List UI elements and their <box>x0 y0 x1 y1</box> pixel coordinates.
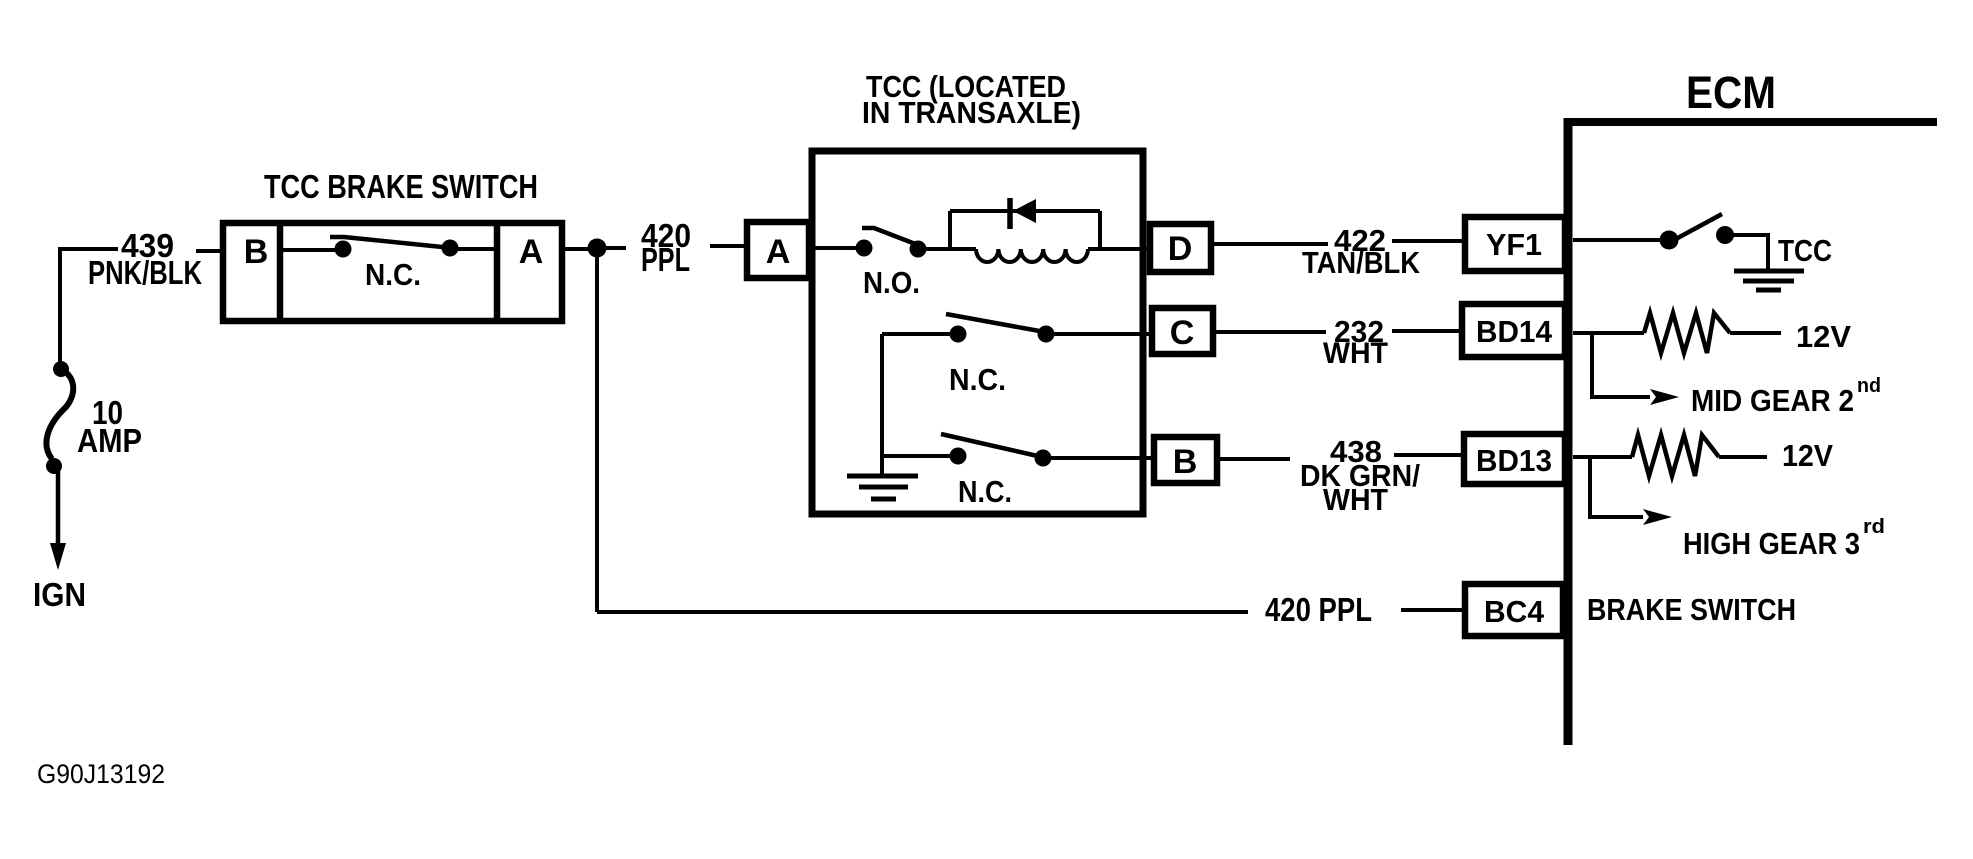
wire fuse to IGN arrow <box>56 470 61 548</box>
svg-text:AMP: AMP <box>77 422 142 459</box>
svg-text:IN TRANSAXLE): IN TRANSAXLE) <box>862 95 1081 130</box>
diode branch right stub <box>1098 211 1102 249</box>
wire 420 PPL long horizontal to BC4 <box>597 610 1248 614</box>
C-row contact dot right <box>1038 326 1055 343</box>
svg-text:G90J13192: G90J13192 <box>37 759 165 789</box>
svg-text:nd: nd <box>1857 375 1881 397</box>
ECM top boundary line <box>1564 118 1937 126</box>
svg-text:TCC: TCC <box>1778 233 1832 268</box>
contact dot left <box>335 241 352 258</box>
resistor R2 zigzag <box>1632 435 1719 476</box>
svg-text:BD13: BD13 <box>1476 443 1552 478</box>
terminal divider A <box>494 223 501 321</box>
fuse 10A s-curve <box>46 369 73 459</box>
switch blade N.C. <box>330 237 452 248</box>
resistor coil (solenoid) <box>976 249 1088 262</box>
wire right dot to A cell <box>458 247 497 251</box>
arrowhead MID GEAR <box>1650 389 1679 405</box>
wire right dot to coil <box>926 247 976 251</box>
svg-text:WHT: WHT <box>1323 337 1388 370</box>
terminal B box <box>1154 437 1217 483</box>
svg-text:BRAKE SWITCH: BRAKE SWITCH <box>1587 592 1796 627</box>
svg-text:BD14: BD14 <box>1476 314 1553 349</box>
diode D1 triangle <box>1013 199 1036 223</box>
svg-text:N.C.: N.C. <box>365 257 421 292</box>
svg-text:BC4: BC4 <box>1484 594 1545 629</box>
ECM vertical boundary line <box>1564 118 1573 745</box>
wire dash into brake switch <box>196 249 221 253</box>
svg-text:N.C.: N.C. <box>958 474 1012 509</box>
wire A into N.O. switch <box>812 246 856 250</box>
svg-text:MID GEAR 2: MID GEAR 2 <box>1691 383 1854 418</box>
vertical link wire to ground <box>880 334 884 476</box>
wire YF1 row inside ECM <box>1573 238 1661 242</box>
wire B to 438 <box>1217 457 1290 461</box>
svg-text:PNK/BLK: PNK/BLK <box>88 254 202 291</box>
ground symbol ECM <box>1734 269 1804 274</box>
diode D1 cathode bar <box>1007 198 1013 229</box>
wire BD13 row inside ECM <box>1573 455 1632 459</box>
wire 439 horizontal from corner <box>59 247 118 251</box>
connector YF1 box <box>1465 217 1565 271</box>
fuse top dot <box>53 361 69 377</box>
arrowhead IGN <box>50 543 66 570</box>
C-row switch blade <box>946 314 1045 332</box>
TCC switch contact dot right <box>1716 226 1734 244</box>
svg-text:B: B <box>1173 443 1198 481</box>
TCC switch blade <box>1674 214 1722 240</box>
svg-text:A: A <box>766 233 791 271</box>
wire coil to D <box>1088 247 1150 251</box>
wire C to 232 <box>1213 330 1326 334</box>
B-row switch blade <box>941 434 1042 457</box>
wire out of brake switch <box>562 247 590 251</box>
svg-text:C: C <box>1170 314 1195 352</box>
wire dash into BD13 <box>1394 453 1461 457</box>
TCC transaxle box <box>812 151 1143 514</box>
resistor R1 zigzag <box>1644 313 1730 353</box>
wire dash into YF1 <box>1392 239 1462 243</box>
svg-text:TCC BRAKE SWITCH: TCC BRAKE SWITCH <box>264 168 538 205</box>
wire resistor to 12V <box>1719 455 1767 459</box>
wire junction to label <box>605 246 626 250</box>
wire 420 PPL vertical drop from junction <box>595 248 599 612</box>
fuse bottom dot <box>46 458 62 474</box>
svg-text:N.O.: N.O. <box>863 265 920 300</box>
B-row contact dot right <box>1035 450 1052 467</box>
contact dot right <box>442 240 459 257</box>
N.O. contact dot left <box>856 240 873 257</box>
wire C-row right <box>1054 332 1152 336</box>
terminal divider B <box>277 223 284 321</box>
svg-text:PPL: PPL <box>641 241 690 278</box>
svg-text:YF1: YF1 <box>1486 227 1542 262</box>
svg-text:D: D <box>1168 230 1193 268</box>
wire dash into BC4 <box>1401 608 1462 612</box>
svg-text:IGN: IGN <box>33 576 86 613</box>
terminal C box <box>1152 308 1213 354</box>
wire dash into TCC pin A <box>710 244 744 248</box>
terminal D box <box>1150 224 1211 272</box>
connector BD13 box <box>1464 434 1565 484</box>
wire inside brake switch <box>283 248 343 252</box>
wire BD14 row inside ECM <box>1573 331 1644 335</box>
wire B-row left <box>882 454 950 458</box>
diode branch left stub <box>948 211 952 249</box>
wire D to 422 <box>1211 242 1328 246</box>
connector BD14 box <box>1462 304 1565 357</box>
B-row contact dot left <box>950 448 967 465</box>
svg-text:B: B <box>244 233 269 271</box>
diode branch top wire <box>950 209 1100 213</box>
N.O. contact dot right <box>910 241 927 258</box>
svg-text:ECM: ECM <box>1686 67 1776 118</box>
wire right dot to ground <box>1733 235 1768 270</box>
svg-text:rd: rd <box>1863 516 1885 538</box>
arrowhead HIGH GEAR <box>1643 509 1672 525</box>
branch wire MID GEAR <box>1592 334 1650 397</box>
svg-text:N.C.: N.C. <box>949 362 1006 397</box>
ground symbol in transaxle <box>847 474 918 479</box>
C-row contact dot left <box>950 326 967 343</box>
terminal A box <box>747 222 809 278</box>
svg-text:12V: 12V <box>1796 319 1851 354</box>
TCC switch contact dot left <box>1660 231 1679 250</box>
connector BC4 box <box>1465 584 1563 636</box>
TCC brake switch box <box>223 223 562 321</box>
wire resistor to 12V <box>1730 331 1781 335</box>
svg-text:12V: 12V <box>1782 438 1833 473</box>
wire B-row right <box>1051 456 1154 460</box>
svg-text:420 PPL: 420 PPL <box>1265 591 1372 628</box>
wire vertical down-left to fuse <box>58 247 62 369</box>
svg-text:WHT: WHT <box>1323 482 1388 517</box>
svg-text:HIGH GEAR 3: HIGH GEAR 3 <box>1683 526 1860 561</box>
svg-text:TAN/BLK: TAN/BLK <box>1302 245 1421 280</box>
N.O. switch blade <box>862 228 918 245</box>
wire C-row left <box>882 332 950 336</box>
branch wire HIGH GEAR <box>1590 458 1643 517</box>
svg-text:A: A <box>519 233 544 271</box>
wire dash into BD14 <box>1392 329 1459 333</box>
junction node 420 <box>588 239 607 258</box>
